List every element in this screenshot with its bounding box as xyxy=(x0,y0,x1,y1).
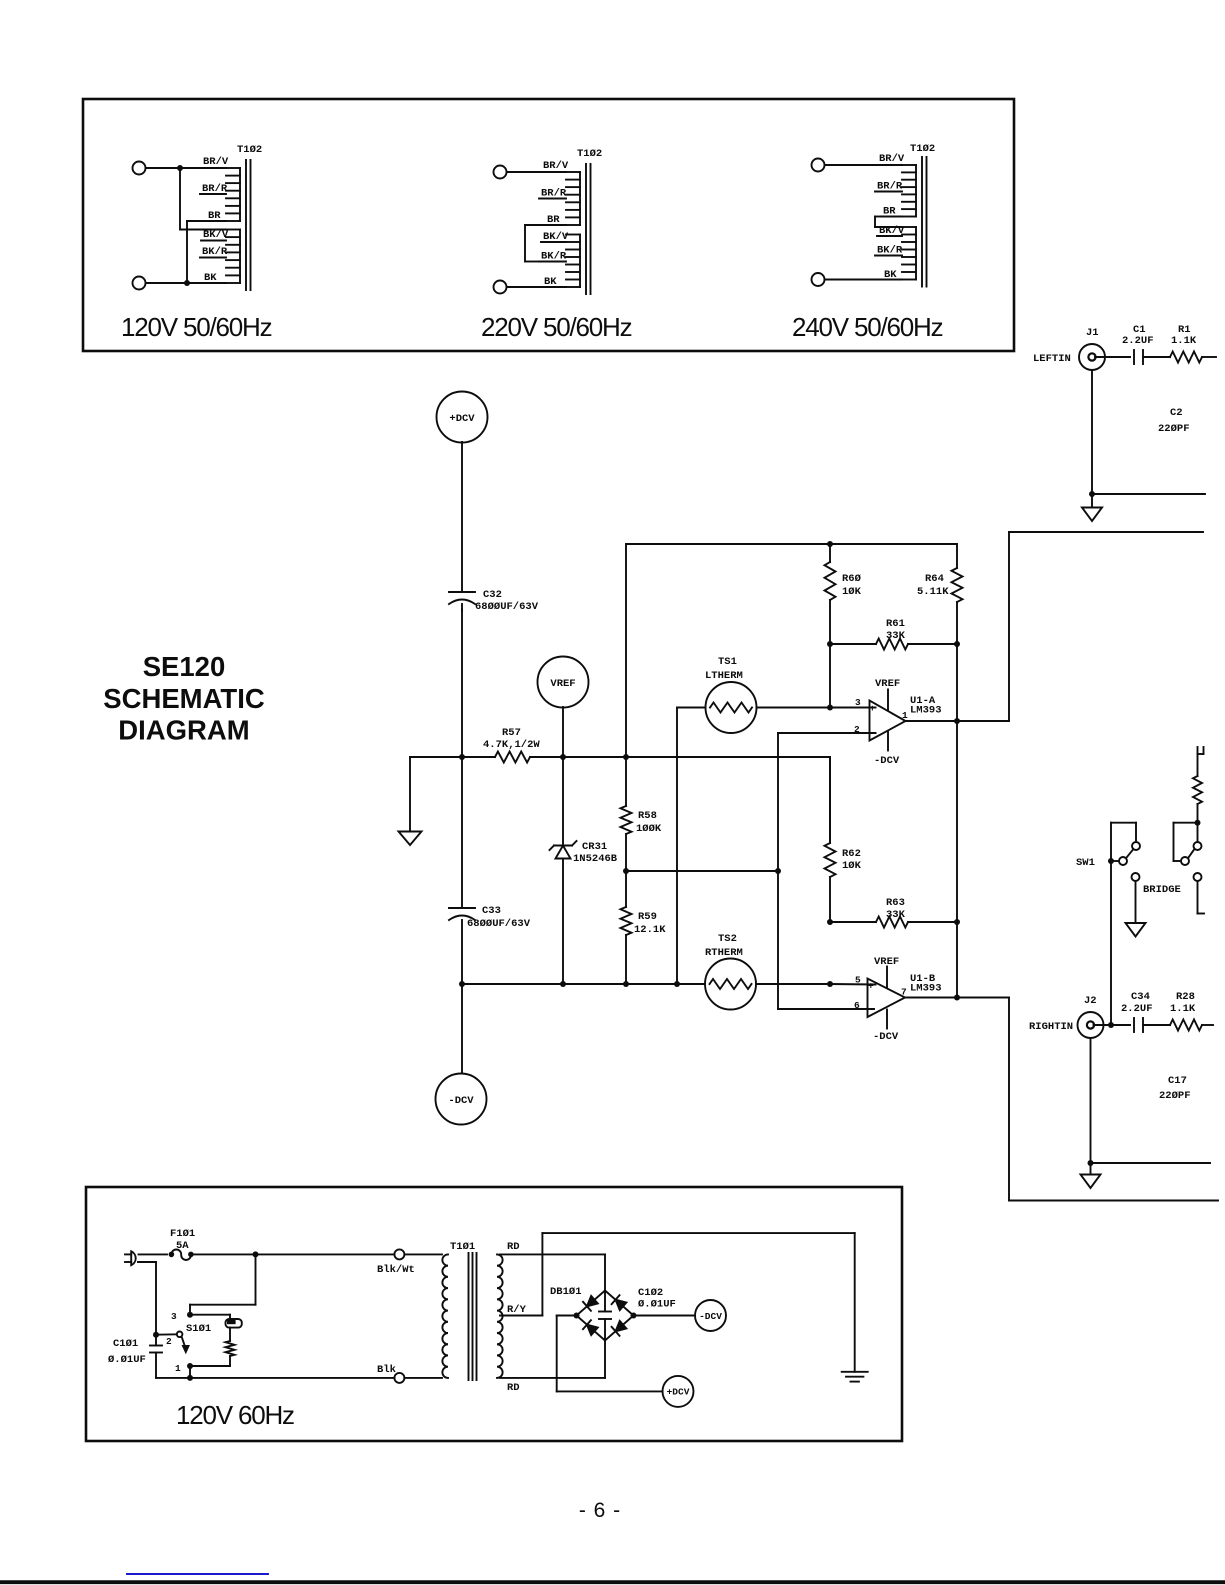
T102 (240V) tap BK/R xyxy=(875,245,903,257)
junction R61 right xyxy=(954,641,960,647)
junction J2 / SW1 feed xyxy=(1108,1022,1114,1028)
svg-text:BK/V: BK/V xyxy=(203,229,229,241)
wire junction to arm pivot xyxy=(156,1333,177,1335)
label R57 xyxy=(483,727,540,751)
label R58 xyxy=(636,810,662,835)
wire clipped resistor toe xyxy=(1198,747,1204,754)
T102 (120V) lower winding xyxy=(226,230,240,284)
T102 (220V) tap BR/V xyxy=(507,160,569,172)
fuse F101 xyxy=(169,1250,194,1260)
svg-text:22ØPF: 22ØPF xyxy=(1159,1090,1191,1102)
T102 (220V) tap BK/V xyxy=(541,231,569,243)
svg-text:LM393: LM393 xyxy=(910,982,942,994)
svg-text:4.7K,1/2W: 4.7K,1/2W xyxy=(483,739,540,751)
T102 (220V) upper winding xyxy=(566,172,580,225)
T102 (220V) core xyxy=(586,164,591,294)
svg-text:R61: R61 xyxy=(886,618,905,630)
resistor R1 xyxy=(1143,352,1216,363)
label R59 xyxy=(634,911,666,936)
capacitor C102 xyxy=(599,1291,611,1341)
terminal Blk xyxy=(394,1373,404,1383)
label F101 xyxy=(170,1228,195,1252)
transformer T102 (220V) terminal top xyxy=(494,166,507,179)
junction U1-B output / R64 rail xyxy=(954,995,960,1001)
transformer T102 (120V) terminal top xyxy=(133,162,146,175)
junction top bus / R60 xyxy=(827,541,833,547)
label CR31 xyxy=(573,841,618,865)
junction J1 ground xyxy=(1089,491,1095,497)
thermistor TS1 xyxy=(677,682,830,733)
T102 (240V) series jumper BR to BK/V xyxy=(875,217,902,228)
svg-text:5.11K: 5.11K xyxy=(917,586,949,598)
wire rail through C33 xyxy=(461,755,463,984)
label C32 xyxy=(475,589,539,613)
svg-text:5A: 5A xyxy=(176,1240,189,1252)
wire output A to right edge xyxy=(957,532,1203,721)
resistor R64 xyxy=(952,544,963,644)
terminal Blk/Wt xyxy=(394,1249,404,1259)
svg-text:1ØK: 1ØK xyxy=(842,860,862,872)
transformer T102 (220V) terminal bottom xyxy=(494,281,507,294)
wire top bus xyxy=(626,543,957,545)
transformer T102 (240V) terminal bottom xyxy=(812,273,825,286)
junction SW1 pole B top xyxy=(1195,820,1201,826)
svg-text:SE120: SE120 xyxy=(143,651,226,682)
svg-text:C1Ø1: C1Ø1 xyxy=(113,1338,138,1350)
svg-text:1.1K: 1.1K xyxy=(1170,1003,1196,1015)
wire bridge - to -DCV xyxy=(634,1315,696,1317)
svg-text:C34: C34 xyxy=(1131,991,1150,1003)
resistor R59 xyxy=(621,871,632,984)
svg-text:1ØK: 1ØK xyxy=(842,586,862,598)
svg-text:BR/V: BR/V xyxy=(879,153,905,165)
svg-text:220V 50/60Hz: 220V 50/60Hz xyxy=(481,312,632,342)
junction lower bus / TS1 drop xyxy=(674,981,680,987)
label C101 xyxy=(108,1338,146,1366)
T102 (120V) tap BK/R xyxy=(200,246,228,258)
svg-text:R/Y: R/Y xyxy=(507,1304,527,1316)
capacitor C32 xyxy=(449,592,475,611)
junction divider wire right xyxy=(775,868,781,874)
label R64 xyxy=(917,573,949,598)
wire divider node to comparator inputs xyxy=(626,870,778,872)
ground (BRIDGE position) xyxy=(1126,923,1146,937)
diode DB101 D2 (top-right edge) xyxy=(612,1295,627,1310)
label TS1 xyxy=(705,656,743,682)
wire secondary bottom lead to bridge xyxy=(500,1341,605,1378)
svg-text:VREF: VREF xyxy=(550,678,575,690)
svg-text:12.1K: 12.1K xyxy=(634,924,666,936)
indicator lamp DS101 xyxy=(190,1315,242,1328)
T102 (240V) lower winding xyxy=(902,227,916,280)
svg-text:R57: R57 xyxy=(502,727,521,739)
svg-text:2: 2 xyxy=(854,724,860,735)
svg-text:1: 1 xyxy=(175,1363,181,1374)
SW1 pole B lower contact xyxy=(1194,873,1205,914)
svg-text:2: 2 xyxy=(166,1336,172,1347)
wire U1-A output xyxy=(906,720,958,722)
bridge rectifier DB101 xyxy=(577,1291,634,1341)
junction (120V top) xyxy=(177,165,183,171)
svg-text:1.1K: 1.1K xyxy=(1171,335,1197,347)
T102 (240V) tap BK/V xyxy=(877,225,905,237)
resistor R60 xyxy=(825,544,836,644)
junction bridge right xyxy=(631,1313,637,1319)
svg-text:LM393: LM393 xyxy=(910,705,942,717)
wire plug to fuse xyxy=(139,1253,168,1255)
label R61 xyxy=(886,618,906,642)
resistor R63 xyxy=(830,917,957,928)
node -DCV circle (left rail) xyxy=(436,1074,487,1125)
wire contact 1 to bottom rail xyxy=(189,1366,191,1378)
capacitor C101 xyxy=(150,1335,162,1378)
svg-text:22ØPF: 22ØPF xyxy=(1158,423,1190,435)
label R28 xyxy=(1170,991,1196,1015)
svg-text:3: 3 xyxy=(855,697,861,708)
wire bridge + to +DCV xyxy=(557,1316,663,1392)
T102 (120V) tap BR/R xyxy=(200,183,228,195)
junction VREF bus / R58 xyxy=(623,754,629,760)
svg-text:VREF: VREF xyxy=(875,678,900,690)
op-amp U1-B LM393 xyxy=(854,956,942,1043)
junction lower bus / R62 node xyxy=(827,981,833,987)
transformer T101 primary winding xyxy=(442,1254,448,1378)
capacitor C33 xyxy=(449,908,475,920)
svg-text:BR/V: BR/V xyxy=(203,156,229,168)
wire ground stub left of R57 xyxy=(410,757,462,832)
junction C101 / S101 arm xyxy=(153,1332,159,1338)
wire fuse to T101 primary top xyxy=(191,1253,395,1255)
switch SW1 pole A xyxy=(1111,823,1140,1025)
wire plug neutral to C101 xyxy=(138,1262,156,1335)
footer short blue line xyxy=(127,1573,268,1575)
T102 (240V) tap BK xyxy=(825,269,903,281)
svg-text:Blk/Wt: Blk/Wt xyxy=(377,1264,415,1276)
svg-text:6: 6 xyxy=(854,1000,860,1011)
svg-text:RD: RD xyxy=(507,1241,520,1253)
svg-text:1: 1 xyxy=(902,710,908,721)
svg-text:LTHERM: LTHERM xyxy=(705,670,743,682)
T102 (220V) tap BR/R xyxy=(539,188,567,200)
junction primary top / switch feed xyxy=(253,1251,259,1257)
AC plug P101 xyxy=(125,1251,136,1265)
svg-text:Ø.Ø1UF: Ø.Ø1UF xyxy=(108,1354,146,1366)
wire J1 ground stem xyxy=(1092,370,1205,508)
resistor R61 xyxy=(830,639,957,650)
T102 (240V) tap BR xyxy=(881,206,902,218)
junction J2 ground xyxy=(1088,1160,1094,1166)
svg-text:J1: J1 xyxy=(1086,327,1099,339)
junction bottom rail xyxy=(187,1375,193,1381)
svg-text:+DCV: +DCV xyxy=(449,413,475,425)
wire lamp resistor to contact 1 xyxy=(190,1365,230,1367)
wire Blk to winding xyxy=(404,1377,442,1379)
svg-text:-DCV: -DCV xyxy=(873,1031,899,1043)
earth ground (power supply) xyxy=(842,1372,868,1382)
junction VREF bus / CR31 xyxy=(560,754,566,760)
svg-text:120V 60Hz: 120V 60Hz xyxy=(176,1400,294,1430)
T102 (240V) tap BR/R xyxy=(875,181,903,193)
svg-text:+DCV: +DCV xyxy=(667,1387,690,1398)
SW1 pole A lower contact xyxy=(1132,873,1140,923)
wire bottom rail xyxy=(156,1377,394,1379)
diode DB101 D1 (top-left edge) xyxy=(583,1296,598,1311)
label R60 xyxy=(842,573,862,598)
op-amp U1-A LM393 xyxy=(854,678,942,767)
wire rail to -DCV xyxy=(461,984,463,1074)
T102 (120V) upper winding xyxy=(226,168,240,221)
wire U1-A pin2 drop xyxy=(778,733,876,1009)
svg-text:2.2UF: 2.2UF xyxy=(1121,1003,1153,1015)
wire +DCV rail upper xyxy=(461,442,463,592)
svg-text:VREF: VREF xyxy=(874,956,899,968)
node VREF circle xyxy=(538,657,589,708)
svg-text:33K: 33K xyxy=(886,630,906,642)
T102 (240V) tap BR/V xyxy=(825,153,905,165)
svg-text:T1Ø2: T1Ø2 xyxy=(910,143,935,155)
junction lower bus / CR31 xyxy=(560,981,566,987)
svg-text:R6Ø: R6Ø xyxy=(842,573,862,585)
svg-text:-DCV: -DCV xyxy=(448,1095,474,1107)
wire center tap R/Y to ground run xyxy=(500,1233,855,1372)
svg-text:BR/V: BR/V xyxy=(543,160,569,172)
svg-text:1N5246B: 1N5246B xyxy=(573,853,618,865)
svg-text:120V 50/60Hz: 120V 50/60Hz xyxy=(121,312,272,342)
svg-text:C33: C33 xyxy=(482,905,501,917)
label R63 xyxy=(886,897,906,921)
connector J1 LEFTIN xyxy=(1079,344,1105,370)
footer dashed rule xyxy=(0,1580,1225,1584)
T102 (220V) series jumper BR to BK/R xyxy=(525,225,545,262)
ground (J2) xyxy=(1081,1175,1101,1189)
T102 (240V) core xyxy=(922,157,927,287)
transformer T102 (120V) terminal bottom xyxy=(133,277,146,290)
T102 (220V) lower winding xyxy=(566,235,580,288)
svg-text:BK/R: BK/R xyxy=(202,246,228,258)
zener diode CR31 xyxy=(550,757,577,984)
resistor R58 xyxy=(621,757,632,871)
wire R61 left to pin3 node xyxy=(829,644,831,708)
svg-text:68ØØUF/63V: 68ØØUF/63V xyxy=(475,601,539,613)
junction bridge left xyxy=(574,1313,580,1319)
svg-text:Blk: Blk xyxy=(377,1364,396,1376)
junction U1-A output / R64 xyxy=(954,718,960,724)
svg-text:RTHERM: RTHERM xyxy=(705,947,743,959)
capacitor C1 xyxy=(1134,350,1143,364)
T102 (120V) core xyxy=(246,160,251,290)
resistor R62 xyxy=(825,757,836,922)
svg-text:F1Ø1: F1Ø1 xyxy=(170,1228,195,1240)
svg-text:T1Ø2: T1Ø2 xyxy=(577,148,602,160)
node +DCV (supply) xyxy=(663,1376,694,1407)
svg-text:R62: R62 xyxy=(842,848,861,860)
svg-text:-DCV: -DCV xyxy=(874,755,900,767)
switch S101 contact 3 xyxy=(187,1312,193,1318)
svg-text:7: 7 xyxy=(901,987,907,998)
T102 (120V) tap BK xyxy=(146,272,227,284)
label C2 xyxy=(1158,407,1190,435)
diode DB101 D3 (bottom-left edge) xyxy=(583,1320,598,1335)
label C17 xyxy=(1159,1075,1191,1102)
wire J1 to C1 xyxy=(1095,356,1130,358)
svg-text:-DCV: -DCV xyxy=(699,1311,722,1322)
svg-text:68ØØUF/63V: 68ØØUF/63V xyxy=(467,918,531,930)
svg-text:T1Ø2: T1Ø2 xyxy=(237,144,262,156)
svg-text:CR31: CR31 xyxy=(582,841,607,853)
wire lower bus (TS2 row) xyxy=(462,983,876,986)
svg-text:3: 3 xyxy=(171,1311,177,1322)
capacitor C34 xyxy=(1134,1018,1143,1032)
svg-text:5: 5 xyxy=(855,975,861,986)
svg-text:C2: C2 xyxy=(1170,407,1183,419)
svg-text:J2: J2 xyxy=(1084,995,1097,1007)
transformer T101 core xyxy=(469,1253,477,1380)
resistor R28 xyxy=(1143,1020,1213,1031)
label R62 xyxy=(842,848,862,872)
junction lower bus / R59 xyxy=(623,981,629,987)
svg-text:C32: C32 xyxy=(483,589,502,601)
T102 (240V) upper winding xyxy=(902,165,916,217)
wire left vertical to VREF bus xyxy=(625,544,627,757)
T102 (120V) parallel jumper wires xyxy=(180,168,226,283)
junction R61 left xyxy=(827,641,833,647)
wire TS1 left drop to lower bus xyxy=(676,708,678,985)
svg-text:R28: R28 xyxy=(1176,991,1195,1003)
svg-text:RD: RD xyxy=(507,1382,520,1394)
T102 (220V) tap BR xyxy=(545,214,566,226)
svg-text:+: + xyxy=(868,981,874,992)
transformer T102 (240V) terminal top xyxy=(812,159,825,172)
node +DCV xyxy=(437,392,488,443)
svg-text:240V 50/60Hz: 240V 50/60Hz xyxy=(792,312,943,342)
ground (J1) xyxy=(1082,508,1102,522)
svg-text:BRIDGE: BRIDGE xyxy=(1143,884,1181,896)
T102 (120V) tap BR xyxy=(206,210,226,222)
label TS2 xyxy=(705,933,743,959)
junction VREF bus / rail xyxy=(459,754,465,760)
wire rail C32 to VREF bus xyxy=(461,609,463,757)
T102 (220V) tap BK/R xyxy=(539,251,567,263)
svg-text:- 6 -: - 6 - xyxy=(579,1499,621,1522)
diode DB101 D4 (bottom-right edge) xyxy=(612,1321,627,1336)
junction TS1/pin3 node xyxy=(827,705,833,711)
svg-text:+: + xyxy=(870,703,876,714)
svg-text:TS2: TS2 xyxy=(718,933,737,945)
wire J2 ground stem xyxy=(1091,1038,1211,1175)
svg-text:S1Ø1: S1Ø1 xyxy=(186,1323,211,1335)
svg-text:SW1: SW1 xyxy=(1076,857,1095,869)
wire pin3 node to U1-A xyxy=(830,707,876,709)
switch S101 arm xyxy=(177,1332,189,1353)
resistor (lamp series) xyxy=(226,1328,235,1366)
T102 (120V) tap BR/V xyxy=(146,156,229,168)
wire output B to bottom right xyxy=(957,998,1218,1201)
wire U1-B output xyxy=(905,997,957,999)
junction R63 right xyxy=(954,919,960,925)
svg-text:TS1: TS1 xyxy=(718,656,737,668)
junction R58/R59 divider xyxy=(623,868,629,874)
svg-text:T1Ø1: T1Ø1 xyxy=(450,1241,475,1253)
wire U1-B pin6 xyxy=(778,1008,874,1010)
T102 (120V) tap BK/V xyxy=(201,229,229,241)
node -DCV (supply) xyxy=(695,1300,726,1331)
label C102 xyxy=(638,1287,676,1311)
svg-text:DIAGRAM: DIAGRAM xyxy=(118,715,249,746)
wire J2 to C34 xyxy=(1094,1024,1131,1026)
connector J2 RIGHTIN xyxy=(1078,1012,1104,1038)
svg-text:DB1Ø1: DB1Ø1 xyxy=(550,1286,582,1298)
wire VREF bus to R62 corner xyxy=(563,757,830,843)
thermistor TS2 xyxy=(705,959,756,1010)
junction (120V bottom) xyxy=(184,280,190,286)
svg-text:R63: R63 xyxy=(886,897,905,909)
svg-text:R59: R59 xyxy=(638,911,657,923)
resistor (clipped, above SW1) xyxy=(1193,747,1202,823)
svg-text:R58: R58 xyxy=(638,810,657,822)
svg-text:2.2UF: 2.2UF xyxy=(1122,335,1154,347)
label R1 xyxy=(1171,324,1197,347)
wire Blk/Wt to winding xyxy=(404,1253,442,1255)
label C33 xyxy=(467,905,531,930)
T102 (220V) tap BK xyxy=(507,276,567,288)
svg-text:RIGHTIN: RIGHTIN xyxy=(1029,1021,1073,1033)
svg-text:R64: R64 xyxy=(925,573,944,585)
svg-text:LEFTIN: LEFTIN xyxy=(1033,353,1071,365)
svg-text:1ØØK: 1ØØK xyxy=(636,823,662,835)
svg-text:C1Ø2: C1Ø2 xyxy=(638,1287,663,1299)
svg-text:33K: 33K xyxy=(886,909,906,921)
svg-text:C17: C17 xyxy=(1168,1075,1187,1087)
svg-text:SCHEMATIC: SCHEMATIC xyxy=(103,683,265,714)
junction lower bus / rail xyxy=(459,981,465,987)
wire VREF circle stem xyxy=(562,707,564,757)
ground triangle xyxy=(399,832,422,846)
title SE120 SCHEMATIC DIAGRAM xyxy=(103,651,265,746)
resistor R57 xyxy=(462,752,563,763)
wire secondary top lead to bridge xyxy=(500,1254,605,1290)
wire switch feed down to contact 3 xyxy=(190,1254,256,1314)
junction SW1 pole A common xyxy=(1108,858,1114,864)
junction R62/R63 xyxy=(827,919,833,925)
label C34 xyxy=(1121,991,1153,1015)
transformer T101 secondary winding xyxy=(497,1254,503,1378)
switch S101 contact 1 xyxy=(187,1363,193,1369)
power supply box border xyxy=(86,1187,902,1441)
top box border xyxy=(83,99,1014,351)
switch SW1 pole B xyxy=(1174,823,1202,865)
label C1 xyxy=(1122,324,1154,347)
svg-text:Ø.Ø1UF: Ø.Ø1UF xyxy=(638,1299,676,1311)
wire R64 output vertical xyxy=(956,644,958,998)
